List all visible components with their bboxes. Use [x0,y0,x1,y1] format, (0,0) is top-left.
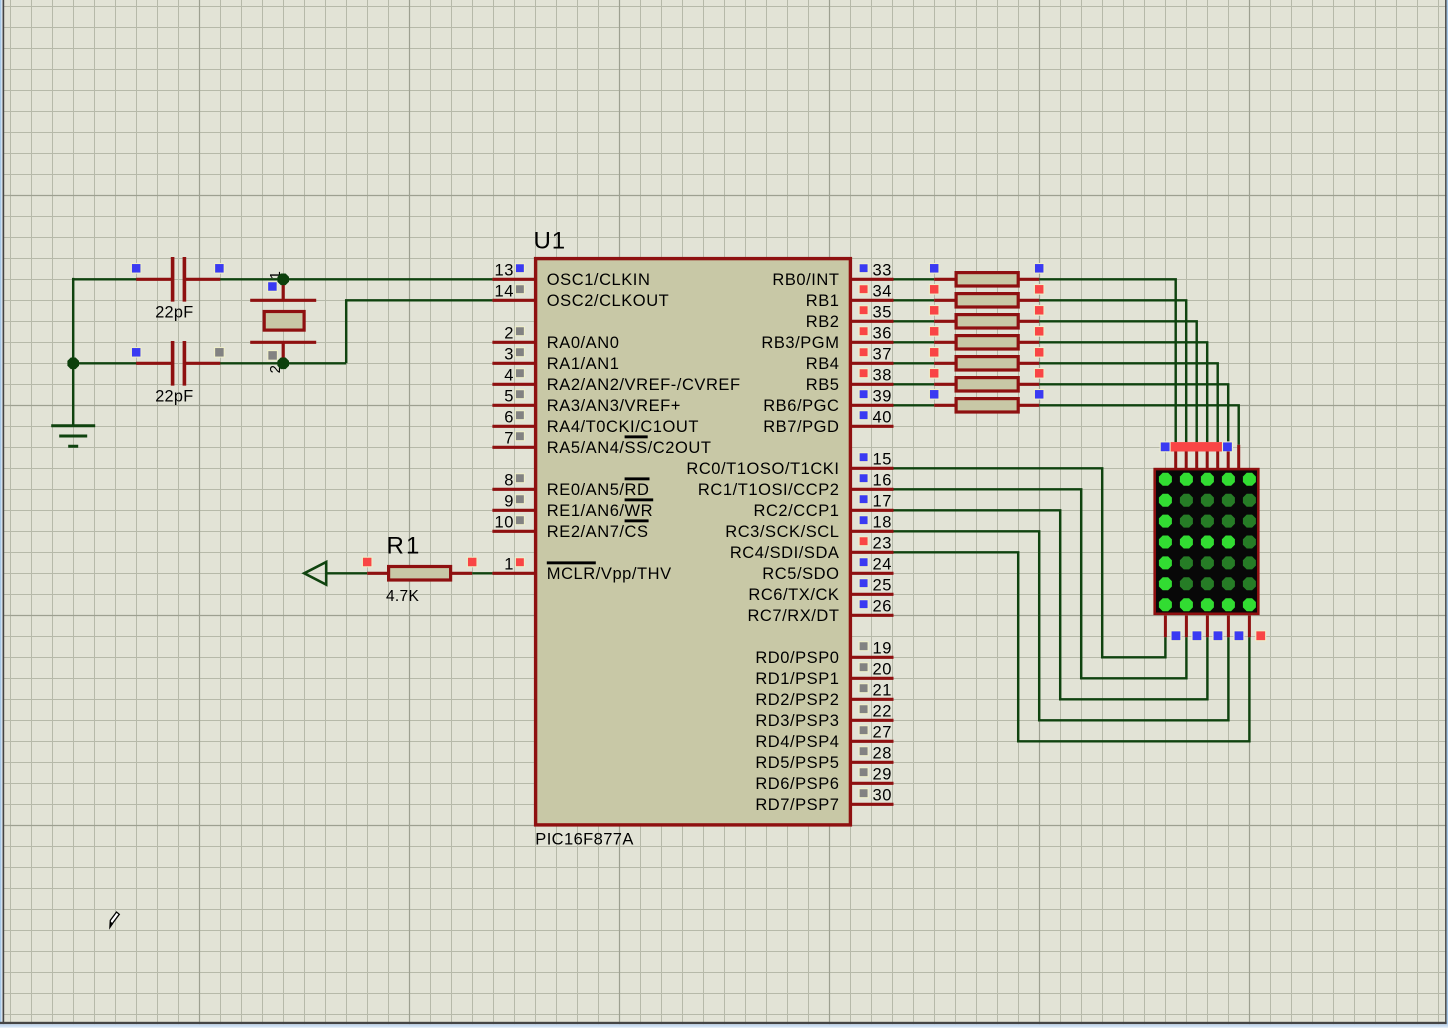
LED matrix body [1155,469,1259,614]
capacitor C2 22pF [131,341,224,406]
wire pin38 to resistor 6 [894,383,935,385]
LED matrix bottom terminal squares [1171,631,1266,641]
LED dot r4c1 [1159,536,1172,549]
svg-text:6: 6 [504,409,514,427]
svg-text:R1: R1 [387,533,422,560]
pin 16 stub (right) [850,472,893,490]
LED dot r3c1 [1159,515,1172,528]
svg-text:38: 38 [873,367,892,385]
svg-text:36: 36 [873,325,892,343]
pin 6 stub (left) [492,409,535,427]
LED dot r5c5 [1243,556,1256,569]
LED dot r7c4 [1222,598,1235,611]
svg-text:RC6/TX/CK: RC6/TX/CK [748,586,839,604]
resistor RB4 series [929,348,1044,371]
svg-text:7: 7 [504,430,514,448]
pin label RE0/AN5/RD [547,477,650,499]
junction node crystal pin1 / OSC1 [277,274,289,286]
svg-text:RD6/PSP6: RD6/PSP6 [755,775,839,793]
svg-text:13: 13 [495,262,514,280]
wire pin37 to resistor 5 [894,362,935,364]
pin 38 stub (right) [850,367,893,385]
svg-text:OSC1/CLKIN: OSC1/CLKIN [547,271,651,289]
svg-text:RA2/AN2/VREF-/CVREF: RA2/AN2/VREF-/CVREF [547,376,741,394]
pin label RA2/AN2/VREF-/CVREF [547,376,741,394]
svg-text:5: 5 [504,388,514,406]
LED dot r7c5 [1243,598,1256,611]
pin 17 stub (right) [850,493,893,511]
svg-text:RB0/INT: RB0/INT [772,271,839,289]
svg-text:1: 1 [504,556,514,574]
svg-text:22pF: 22pF [155,388,193,406]
svg-text:30: 30 [873,787,892,805]
pin label RE1/AN6/WR [547,498,653,520]
pin 2 stub (left) [492,325,535,343]
pin 8 stub (left) [492,472,535,490]
svg-text:18: 18 [873,514,892,532]
pin label OSC1/CLKIN [547,271,651,289]
wire resistor 5 to matrix top pin 5 [1039,363,1218,442]
pin 24 stub (right) [850,556,893,574]
wire pin33 to resistor 1 [894,278,935,280]
wire OSC1 net: pin13 to cap C1 left plate [73,278,170,280]
LED dot r5c3 [1201,556,1214,569]
pin label OSC2/CLKOUT [547,292,670,310]
LED dot r6c2 [1180,577,1193,590]
svg-text:14: 14 [495,283,514,301]
LED dot r4c2 [1180,536,1193,549]
LED matrix top pin stubs [1176,445,1239,468]
resistor RB1 series [929,285,1044,308]
svg-text:10: 10 [495,514,514,532]
svg-text:35: 35 [873,304,892,322]
svg-text:8: 8 [504,472,514,490]
svg-text:22: 22 [873,703,892,721]
wire R1 to pin1 [472,572,492,574]
LED dot r5c2 [1180,556,1193,569]
pin 18 stub (right) [850,514,893,532]
LED matrix top pin bar [1160,442,1232,452]
svg-text:RA0/AN0: RA0/AN0 [547,334,620,352]
svg-text:RB5: RB5 [806,376,840,394]
svg-text:RD7/PSP7: RD7/PSP7 [755,796,839,814]
LED dot r2c5 [1243,494,1256,507]
svg-text:15: 15 [873,451,892,469]
svg-text:24: 24 [873,556,892,574]
junction node crystal pin2 / OSC2 [277,358,289,370]
LED dot r1c5 [1243,473,1256,486]
wire resistor 7 to matrix top pin 7 [1039,405,1239,445]
pin 30 stub (right) [850,787,893,805]
pin 28 stub (right) [850,745,893,763]
svg-text:20: 20 [873,661,892,679]
svg-text:40: 40 [873,409,892,427]
crystal X1 [250,271,316,373]
pin 39 stub (right) [850,388,893,406]
svg-text:RC0/T1OSO/T1CKI: RC0/T1OSO/T1CKI [686,460,839,478]
pin 13 stub (left) [492,262,535,280]
LED dot r6c3 [1201,577,1214,590]
pin 40 stub (right) [850,409,893,427]
svg-text:23: 23 [873,535,892,553]
LED dot r2c1 [1159,494,1172,507]
op-amp U1 PIC16F877A body [536,259,851,825]
pin 3 stub (left) [492,346,535,364]
LED dot r6c1 [1159,577,1172,590]
wire pin39 to resistor 7 [894,404,935,406]
pin 15 stub (right) [850,451,893,469]
LED dot r4c4 [1222,536,1235,549]
pin label MCLR/Vpp/THV [547,561,672,583]
pin 22 stub (right) [850,703,893,721]
pin 5 stub (left) [492,388,535,406]
pin 26 stub (right) [850,598,893,616]
LED dot r7c3 [1201,598,1214,611]
svg-text:2: 2 [504,325,514,343]
svg-text:RA3/AN3/VREF+: RA3/AN3/VREF+ [547,397,681,415]
LED dot r3c3 [1201,515,1214,528]
svg-text:33: 33 [873,262,892,280]
LED dot r7c2 [1180,598,1193,611]
svg-text:3: 3 [504,346,514,364]
wire OSC2 net bottom: cap C2 right plate to riser [187,362,346,364]
LED dot r3c2 [1180,515,1193,528]
resistor RB0 series [929,264,1044,287]
wire ground drop [72,363,74,425]
pin 37 stub (right) [850,346,893,364]
pin 4 stub (left) [492,367,535,385]
svg-text:29: 29 [873,766,892,784]
pin 14 stub (left) [492,283,535,301]
svg-text:26: 26 [873,598,892,616]
svg-text:RB1: RB1 [806,292,840,310]
wire resistor 3 to matrix top pin 3 [1039,321,1197,442]
svg-text:RC4/SDI/SDA: RC4/SDI/SDA [730,544,840,562]
wire resistor 1 to matrix top pin 1 [1039,279,1176,442]
LED dot r6c4 [1222,577,1235,590]
wire pin36 to resistor 4 [894,341,935,343]
wire RC2 to matrix column [894,510,1208,699]
svg-text:RB4: RB4 [806,355,840,373]
svg-text:17: 17 [873,493,892,511]
wire OSC1 net: cap C1 right plate to pin13 [187,278,492,280]
LED dot r2c2 [1180,494,1193,507]
pin label RA1/AN1 [547,355,620,373]
svg-text:25: 25 [873,577,892,595]
svg-text:RA5/AN4/SS/C2OUT: RA5/AN4/SS/C2OUT [547,439,712,457]
pin 1 stub (left) [492,556,535,574]
LED dot r1c4 [1222,473,1235,486]
LED matrix bottom pin stubs [1165,615,1249,637]
wire resistor 4 to matrix top pin 4 [1039,342,1207,442]
LED dot r5c4 [1222,556,1235,569]
pin 25 stub (right) [850,577,893,595]
wire riser from crystal bottom net up to OSC2 pin14 [346,300,492,363]
svg-text:22pF: 22pF [155,304,193,322]
pin 23 stub (right) [850,535,893,553]
LED dot r5c1 [1159,556,1172,569]
svg-text:9: 9 [504,493,514,511]
svg-text:RC1/T1OSI/CCP2: RC1/T1OSI/CCP2 [698,481,840,499]
LED dot r6c5 [1243,577,1256,590]
svg-text:RC3/SCK/SCL: RC3/SCK/SCL [725,523,839,541]
svg-text:39: 39 [873,388,892,406]
wire RC4 to matrix column [894,552,1250,741]
svg-text:37: 37 [873,346,892,364]
svg-text:OSC2/CLKOUT: OSC2/CLKOUT [547,292,670,310]
LED dot r1c3 [1201,473,1214,486]
resistor RB3 series [929,327,1044,350]
svg-text:19: 19 [873,640,892,658]
LED dot r1c2 [1180,473,1193,486]
svg-text:RE1/AN6/WR: RE1/AN6/WR [547,502,653,520]
svg-text:RB2: RB2 [806,313,840,331]
svg-text:RE2/AN7/CS: RE2/AN7/CS [547,523,649,541]
svg-text:RC5/SDO: RC5/SDO [762,565,839,583]
pin label RA5/AN4/SS/C2OUT [547,435,712,457]
svg-text:RD5/PSP5: RD5/PSP5 [755,754,839,772]
svg-text:RB3/PGM: RB3/PGM [761,334,839,352]
LED dot r3c5 [1243,515,1256,528]
pencil cursor [110,912,119,927]
wire RC0 to matrix column [894,468,1166,657]
svg-text:4: 4 [504,367,514,385]
svg-text:RD3/PSP3: RD3/PSP3 [755,712,839,730]
pin label RA3/AN3/VREF+ [547,397,681,415]
pin 29 stub (right) [850,766,893,784]
wire pin35 to resistor 3 [894,320,935,322]
wire resistor 6 to matrix top pin 6 [1039,384,1228,442]
svg-text:RC7/RX/DT: RC7/RX/DT [747,607,839,625]
pin 19 stub (right) [850,640,893,658]
svg-text:4.7K: 4.7K [386,588,419,605]
svg-text:MCLR/Vpp/THV: MCLR/Vpp/THV [547,565,672,583]
resistor RB6 series [929,390,1044,413]
LED dot r4c3 [1201,536,1214,549]
resistor RB5 series [929,369,1044,392]
svg-text:27: 27 [873,724,892,742]
svg-text:RE0/AN5/RD: RE0/AN5/RD [547,481,650,499]
svg-text:21: 21 [873,682,892,700]
svg-text:RD1/PSP1: RD1/PSP1 [755,670,839,688]
pin 10 stub (left) [492,514,535,532]
svg-text:RA1/AN1: RA1/AN1 [547,355,620,373]
LED dot r4c5 [1243,536,1256,549]
pin 35 stub (right) [850,304,893,322]
LED dot r1c1 [1159,473,1172,486]
LED dot r2c3 [1201,494,1214,507]
pin 7 stub (left) [492,430,535,448]
pin label RA4/T0CKI/C1OUT [547,418,699,436]
LED dot r7c1 [1159,598,1172,611]
pin 21 stub (right) [850,682,893,700]
capacitor C1 22pF [131,257,224,322]
svg-text:16: 16 [873,472,892,490]
svg-text:RB7/PGD: RB7/PGD [763,418,839,436]
wire pin34 to resistor 2 [894,299,935,301]
wire left vertical to ground junction [72,278,74,363]
svg-text:U1: U1 [534,228,566,255]
svg-text:RA4/T0CKI/C1OUT: RA4/T0CKI/C1OUT [547,418,699,436]
terminal input arrow (MCLR) [304,562,326,585]
resistor RB2 series [929,306,1044,329]
svg-text:RD0/PSP0: RD0/PSP0 [755,649,839,667]
wire arrow to R1 [326,572,367,574]
LED dot r3c4 [1222,515,1235,528]
wire RC1 to matrix column [894,489,1187,678]
pin 20 stub (right) [850,661,893,679]
pin label RA0/AN0 [547,334,620,352]
wire OSC2 net bottom: ground junction to cap C2 left plate [73,362,170,364]
svg-text:RD4/PSP4: RD4/PSP4 [755,733,839,751]
LED dot r2c4 [1222,494,1235,507]
svg-text:RC2/CCP1: RC2/CCP1 [753,502,839,520]
junction node ground tee [67,358,79,370]
svg-text:RD2/PSP2: RD2/PSP2 [755,691,839,709]
pin 36 stub (right) [850,325,893,343]
svg-text:28: 28 [873,745,892,763]
pin label RE2/AN7/CS [547,519,649,541]
wire RC3 to matrix column [894,531,1229,720]
wire resistor 2 to matrix top pin 2 [1039,300,1186,442]
svg-text:34: 34 [873,283,892,301]
pin 34 stub (right) [850,283,893,301]
pin 33 stub (right) [850,262,893,280]
svg-text:RB6/PGC: RB6/PGC [763,397,839,415]
resistor R1 4.7K [362,533,477,605]
svg-text:PIC16F877A: PIC16F877A [535,830,633,848]
pin 27 stub (right) [850,724,893,742]
ground [51,426,95,447]
pin 9 stub (left) [492,493,535,511]
